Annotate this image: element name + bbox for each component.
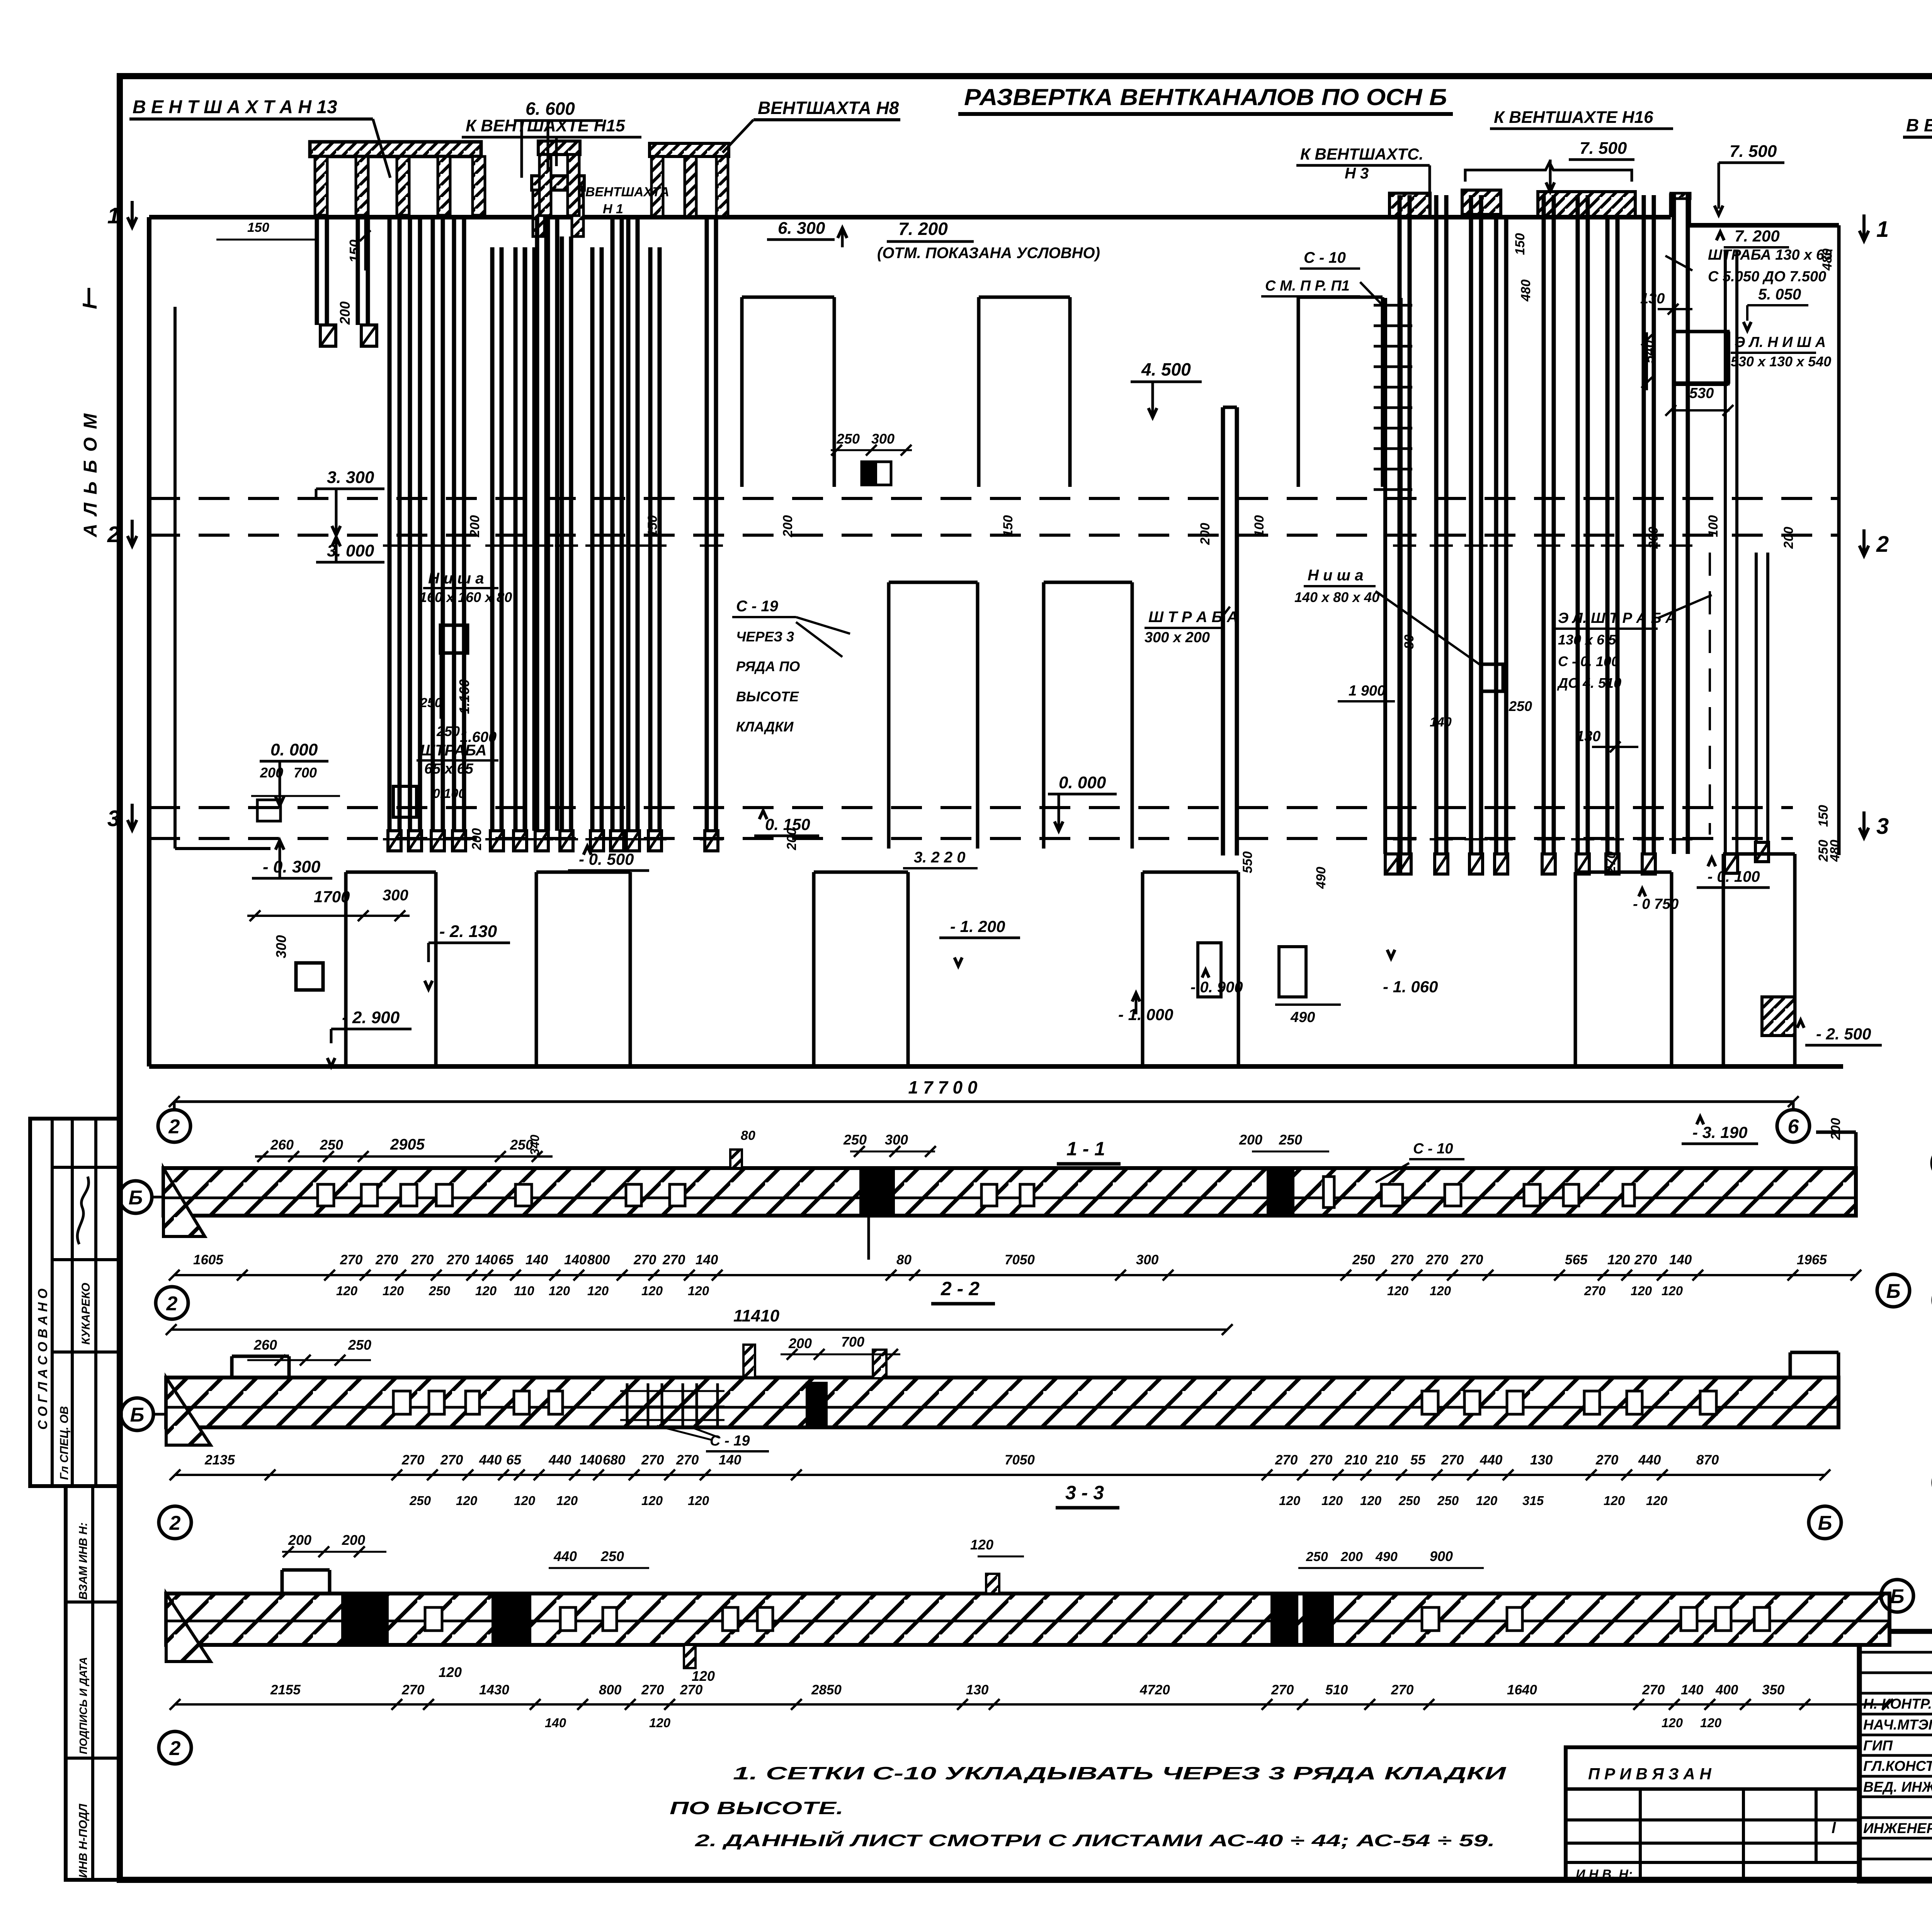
el shtraba channel dashed bbox=[1724, 251, 1727, 854]
svg-text:120: 120 bbox=[641, 1493, 663, 1508]
svg-text:Н и ш а: Н и ш а bbox=[428, 570, 484, 587]
svg-text:150: 150 bbox=[645, 515, 660, 537]
svg-text:250: 250 bbox=[510, 1137, 533, 1153]
svg-text:270: 270 bbox=[401, 1682, 425, 1697]
svg-text:ЧЕРЕЗ 3: ЧЕРЕЗ 3 bbox=[736, 629, 794, 645]
svg-text:140: 140 bbox=[1681, 1682, 1704, 1697]
svg-text:130: 130 bbox=[1576, 728, 1600, 745]
svg-text:140: 140 bbox=[580, 1452, 602, 1468]
svg-text:120: 120 bbox=[1604, 1493, 1625, 1508]
channels mid group bbox=[490, 247, 495, 831]
svg-text:6: 6 bbox=[1788, 1116, 1799, 1138]
svg-text:l: l bbox=[1832, 1820, 1836, 1837]
svg-text:350: 350 bbox=[1762, 1682, 1785, 1697]
svg-text:ИНЖЕНЕР.: ИНЖЕНЕР. bbox=[1863, 1820, 1932, 1836]
svg-text:270: 270 bbox=[1310, 1452, 1333, 1468]
svg-text:270: 270 bbox=[1425, 1252, 1449, 1267]
svg-text:315: 315 bbox=[1522, 1493, 1544, 1508]
svg-text:120: 120 bbox=[692, 1668, 715, 1684]
dashed level lines left drawing bbox=[149, 497, 1839, 500]
svg-text:С - 19: С - 19 bbox=[710, 1433, 750, 1449]
svg-text:120: 120 bbox=[688, 1284, 709, 1298]
svg-text:200: 200 bbox=[1646, 527, 1661, 549]
svg-text:7. 500: 7. 500 bbox=[1730, 142, 1777, 161]
left drawing outline bbox=[149, 215, 1671, 219]
1-1 chimney bbox=[730, 1150, 742, 1168]
svg-text:270: 270 bbox=[1275, 1452, 1298, 1468]
svg-text:ДО 4. 510: ДО 4. 510 bbox=[1557, 675, 1621, 691]
svg-text:120: 120 bbox=[649, 1716, 671, 1730]
windows lower row bbox=[889, 581, 978, 584]
svg-text:1 7 7 0 0: 1 7 7 0 0 bbox=[908, 1077, 977, 1097]
svg-text:270: 270 bbox=[401, 1452, 425, 1468]
svg-text:150: 150 bbox=[1001, 515, 1015, 537]
svg-text:110: 110 bbox=[514, 1284, 534, 1298]
left stamp: inv column bbox=[66, 1486, 120, 1880]
svg-text:- 2. 500: - 2. 500 bbox=[1816, 1025, 1871, 1043]
svg-text:Б: Б bbox=[1818, 1512, 1832, 1534]
svg-text:440: 440 bbox=[1480, 1452, 1503, 1468]
svg-text:С 5.050 ДО 7.500: С 5.050 ДО 7.500 bbox=[1708, 269, 1826, 285]
svg-text:65: 65 bbox=[506, 1452, 521, 1468]
svg-text:- 1. 000: - 1. 000 bbox=[1118, 1005, 1173, 1024]
svg-text:55: 55 bbox=[1410, 1452, 1425, 1468]
svg-text:1640: 1640 bbox=[1507, 1682, 1537, 1697]
section 2-2 band bbox=[166, 1378, 1838, 1427]
svg-text:490: 490 bbox=[1290, 1009, 1315, 1026]
svg-text:510: 510 bbox=[1325, 1682, 1348, 1697]
svg-text:150: 150 bbox=[1816, 805, 1831, 827]
svg-text:200: 200 bbox=[788, 1335, 812, 1351]
svg-text:65 х 65: 65 х 65 bbox=[424, 761, 474, 777]
svg-text:250: 250 bbox=[409, 1493, 431, 1508]
svg-text:130: 130 bbox=[1530, 1452, 1553, 1468]
svg-text:0. 000: 0. 000 bbox=[270, 740, 318, 759]
svg-text:- 2. 130: - 2. 130 bbox=[439, 922, 497, 941]
1-1 S-10 marker bbox=[1323, 1177, 1334, 1207]
svg-text:5. 050: 5. 050 bbox=[1758, 286, 1801, 303]
svg-text:7050: 7050 bbox=[1005, 1252, 1035, 1267]
small nisha square bbox=[296, 963, 323, 990]
svg-text:120: 120 bbox=[514, 1493, 536, 1508]
svg-text:1965: 1965 bbox=[1797, 1252, 1827, 1267]
2-2 white boxes bbox=[393, 1391, 410, 1414]
svg-text:1: 1 bbox=[1876, 217, 1889, 242]
svg-text:РЯДА ПО: РЯДА ПО bbox=[736, 658, 800, 674]
svg-text:3: 3 bbox=[1876, 814, 1889, 839]
svg-text:1. СЕТКИ С-10 УКЛАДЫВАТЬ ЧЕ: 1. СЕТКИ С-10 УКЛАДЫВАТЬ ЧЕРЕЗ 3 РЯДА КЛ… bbox=[733, 1763, 1507, 1783]
2-2 C-19 mesh bbox=[626, 1383, 629, 1426]
svg-text:К ВЕНТШАХТС.: К ВЕНТШАХТС. bbox=[1300, 145, 1423, 163]
svg-text:140: 140 bbox=[1430, 715, 1452, 730]
svg-text:270: 270 bbox=[633, 1252, 656, 1267]
svg-text:2850: 2850 bbox=[811, 1682, 842, 1697]
svg-text:КУКАРЕКО: КУКАРЕКО bbox=[80, 1283, 92, 1345]
svg-text:120: 120 bbox=[970, 1537, 993, 1553]
svg-text:120: 120 bbox=[1646, 1493, 1668, 1508]
svg-text:270: 270 bbox=[1460, 1252, 1483, 1267]
svg-text:Н 3: Н 3 bbox=[1345, 165, 1369, 182]
svg-text:Б: Б bbox=[129, 1187, 143, 1209]
svg-text:270: 270 bbox=[1391, 1682, 1414, 1697]
svg-text:250: 250 bbox=[1437, 1493, 1459, 1508]
svg-text:- 0. 500: - 0. 500 bbox=[579, 850, 634, 868]
svg-text:130: 130 bbox=[966, 1682, 989, 1697]
svg-text:1 900: 1 900 bbox=[1349, 683, 1385, 699]
svg-text:270: 270 bbox=[1634, 1252, 1657, 1267]
svg-text:3. 2 2 0: 3. 2 2 0 bbox=[914, 849, 965, 866]
svg-text:- 2. 900: - 2. 900 bbox=[342, 1008, 400, 1027]
svg-text:490: 490 bbox=[1375, 1549, 1398, 1564]
shtraba 65 box bbox=[393, 786, 417, 817]
svg-text:480: 480 bbox=[1820, 248, 1835, 271]
svg-text:140: 140 bbox=[564, 1252, 587, 1267]
svg-text:2135: 2135 bbox=[204, 1452, 235, 1468]
svg-text:150: 150 bbox=[347, 240, 362, 263]
tall channel right bbox=[1672, 193, 1676, 854]
svg-text:200: 200 bbox=[469, 828, 484, 850]
svg-text:250: 250 bbox=[843, 1132, 867, 1148]
svg-text:150: 150 bbox=[1513, 233, 1527, 255]
1-1 black squares bbox=[859, 1168, 895, 1216]
svg-text:120: 120 bbox=[587, 1284, 609, 1298]
svg-text:200: 200 bbox=[781, 515, 795, 537]
svg-text:4. 500: 4. 500 bbox=[1141, 359, 1191, 379]
vent cap N8 bbox=[650, 143, 729, 156]
svg-text:С - 10: С - 10 bbox=[1304, 249, 1346, 266]
svg-text:270: 270 bbox=[641, 1452, 664, 1468]
svg-text:(ОТМ. ПОКАЗАНА УСЛОВНО): (ОТМ. ПОКАЗАНА УСЛОВНО) bbox=[877, 245, 1100, 262]
svg-text:1 - 1: 1 - 1 bbox=[1066, 1138, 1105, 1160]
svg-text:250: 250 bbox=[1509, 698, 1532, 714]
svg-text:440: 440 bbox=[1638, 1452, 1661, 1468]
svg-text:260: 260 bbox=[253, 1337, 277, 1353]
svg-text:120: 120 bbox=[1662, 1284, 1683, 1298]
svg-text:2: 2 bbox=[168, 1116, 180, 1138]
svg-text:700: 700 bbox=[841, 1334, 864, 1350]
svg-text:120: 120 bbox=[336, 1284, 358, 1298]
svg-text:Н и ш а: Н и ш а bbox=[1308, 567, 1363, 584]
svg-text:2: 2 bbox=[1876, 532, 1889, 557]
svg-text:6. 600: 6. 600 bbox=[526, 99, 575, 119]
svg-text:120: 120 bbox=[1279, 1493, 1301, 1508]
svg-text:НАЧ.МТЭП: НАЧ.МТЭП bbox=[1863, 1717, 1932, 1733]
svg-text:К ВЕНТШАХТЕ Н15: К ВЕНТШАХТЕ Н15 bbox=[466, 116, 625, 135]
svg-text:2155: 2155 bbox=[270, 1682, 301, 1697]
svg-text:210: 210 bbox=[1344, 1452, 1367, 1468]
svg-text:2 - 2: 2 - 2 bbox=[940, 1278, 980, 1299]
svg-text:120: 120 bbox=[1700, 1716, 1722, 1730]
svg-text:120: 120 bbox=[383, 1284, 404, 1298]
svg-text:ИНВ Н-ПОДЛ: ИНВ Н-ПОДЛ bbox=[77, 1803, 90, 1878]
svg-text:80: 80 bbox=[896, 1252, 912, 1267]
circled B left of 1-1 bbox=[119, 1181, 152, 1213]
svg-text:270: 270 bbox=[446, 1252, 469, 1267]
svg-text:300: 300 bbox=[1136, 1252, 1159, 1267]
svg-text:Б: Б bbox=[1890, 1585, 1905, 1608]
svg-text:2. ДАННЫЙ ЛИСТ СМОТРИ С ЛИ: 2. ДАННЫЙ ЛИСТ СМОТРИ С ЛИСТАМИ АС-40 ÷ … bbox=[694, 1830, 1495, 1850]
svg-text:200: 200 bbox=[1828, 1118, 1843, 1140]
svg-text:1: 1 bbox=[107, 203, 120, 228]
svg-text:120: 120 bbox=[1476, 1493, 1498, 1508]
dim row 2-2 bbox=[175, 1474, 1825, 1476]
svg-text:120: 120 bbox=[1607, 1252, 1630, 1267]
svg-text:120: 120 bbox=[439, 1664, 462, 1680]
svg-text:3: 3 bbox=[107, 806, 120, 831]
svg-text:550: 550 bbox=[1240, 851, 1255, 873]
svg-text:100: 100 bbox=[1252, 515, 1267, 537]
svg-text:В Е Н Т Ш А Х Т А 11: В Е Н Т Ш А Х Т А 11 bbox=[1906, 115, 1932, 135]
svg-text:Ш Т Р А Б А: Ш Т Р А Б А bbox=[1148, 609, 1238, 626]
svg-text:В Е Н Т Ш А Х Т А Н 13: В Е Н Т Ш А Х Т А Н 13 bbox=[133, 97, 337, 117]
left stamp: soglasovano table bbox=[30, 1119, 119, 1486]
svg-text:200: 200 bbox=[1239, 1132, 1262, 1148]
svg-text:300: 300 bbox=[871, 431, 895, 447]
svg-text:900: 900 bbox=[1430, 1548, 1453, 1564]
svg-text:270: 270 bbox=[680, 1682, 703, 1697]
svg-text:120: 120 bbox=[1430, 1284, 1451, 1298]
svg-text:7. 500: 7. 500 bbox=[1580, 139, 1627, 158]
dim row 1-1 bbox=[174, 1274, 1856, 1276]
svg-text:- 1. 200: - 1. 200 bbox=[950, 917, 1005, 935]
svg-text:130 х 6 5: 130 х 6 5 bbox=[1558, 632, 1616, 648]
svg-text:200: 200 bbox=[1340, 1549, 1363, 1564]
svg-text:ШТРАБА: ШТРАБА bbox=[420, 742, 486, 759]
svg-text:200: 200 bbox=[1198, 523, 1213, 545]
svg-text:2: 2 bbox=[169, 1737, 181, 1760]
svg-text:680: 680 bbox=[603, 1452, 626, 1468]
svg-text:3. 300: 3. 300 bbox=[327, 468, 374, 487]
foundation piers bbox=[346, 871, 436, 874]
svg-text:С - 0. 100: С - 0. 100 bbox=[1558, 653, 1619, 669]
svg-text:65: 65 bbox=[498, 1252, 514, 1267]
svg-text:270: 270 bbox=[375, 1252, 398, 1267]
svg-text:210: 210 bbox=[1375, 1452, 1398, 1468]
3-3 chimneys bbox=[986, 1574, 999, 1594]
svg-text:250: 250 bbox=[600, 1548, 624, 1564]
svg-text:КЛАДКИ: КЛАДКИ bbox=[736, 719, 794, 735]
svg-text:РАЗВЕРТКА ВЕНТКАНАЛОВ ПО ОСН Б: РАЗВЕРТКА ВЕНТКАНАЛОВ ПО ОСН Б bbox=[964, 84, 1447, 110]
svg-text:1430: 1430 bbox=[479, 1682, 509, 1697]
svg-text:120: 120 bbox=[475, 1284, 497, 1298]
svg-text:100: 100 bbox=[1706, 515, 1721, 537]
svg-text:7. 200: 7. 200 bbox=[898, 219, 948, 239]
right low block -2.500 bbox=[1722, 854, 1725, 1068]
svg-text:530: 530 bbox=[1689, 385, 1714, 401]
el nisha 530 box bbox=[1674, 332, 1728, 384]
svg-text:- 0. 300: - 0. 300 bbox=[263, 857, 321, 876]
svg-text:270: 270 bbox=[1604, 851, 1618, 874]
svg-text:А Л Ь Б О М: А Л Ь Б О М bbox=[80, 412, 101, 537]
svg-text:490: 490 bbox=[1314, 867, 1328, 889]
svg-text:120: 120 bbox=[549, 1284, 570, 1298]
svg-text:1700: 1700 bbox=[314, 888, 350, 906]
2-2 chimneys bbox=[743, 1345, 755, 1378]
svg-text:250: 250 bbox=[1306, 1549, 1328, 1564]
svg-text:270: 270 bbox=[641, 1682, 664, 1697]
svg-text:120: 120 bbox=[1387, 1284, 1409, 1298]
channel pair right low bbox=[1755, 553, 1758, 842]
svg-text:Б: Б bbox=[1886, 1280, 1901, 1303]
svg-text:440: 440 bbox=[553, 1548, 577, 1564]
svg-text:250: 250 bbox=[420, 696, 442, 710]
svg-text:250: 250 bbox=[1279, 1132, 1302, 1148]
svg-text:11410: 11410 bbox=[733, 1306, 780, 1325]
svg-text:270: 270 bbox=[1642, 1682, 1665, 1697]
svg-text:С М. П Р. П1: С М. П Р. П1 bbox=[1265, 278, 1350, 294]
svg-text:4720: 4720 bbox=[1139, 1682, 1170, 1697]
nisha 160 box bbox=[440, 625, 468, 653]
svg-text:250: 250 bbox=[429, 1284, 451, 1298]
svg-text:140: 140 bbox=[1669, 1252, 1692, 1267]
svg-text:440: 440 bbox=[479, 1452, 502, 1468]
svg-text:- 0. 100: - 0. 100 bbox=[1708, 868, 1760, 885]
dim row 3-3 bbox=[175, 1703, 1888, 1706]
channels left group bbox=[315, 215, 319, 325]
svg-text:7050: 7050 bbox=[1005, 1452, 1035, 1468]
svg-text:120: 120 bbox=[556, 1493, 578, 1508]
svg-text:ГЛ.КОНСТР.: ГЛ.КОНСТР. bbox=[1863, 1758, 1932, 1774]
svg-text:Б: Б bbox=[130, 1404, 145, 1426]
svg-text:400: 400 bbox=[1715, 1682, 1738, 1697]
tall shtraba channel 300x200 bbox=[1221, 407, 1225, 855]
svg-text:К ВЕНТШАХТЕ Н16: К ВЕНТШАХТЕ Н16 bbox=[1494, 108, 1653, 127]
svg-text:250: 250 bbox=[436, 723, 460, 739]
svg-text:200: 200 bbox=[1781, 527, 1796, 549]
svg-text:200: 200 bbox=[784, 828, 799, 850]
svg-text:300: 300 bbox=[383, 887, 408, 904]
svg-text:ВЫСОТЕ: ВЫСОТЕ bbox=[736, 689, 799, 704]
svg-text:140: 140 bbox=[719, 1452, 742, 1468]
svg-text:270: 270 bbox=[1584, 1284, 1606, 1298]
2-2 black square bbox=[806, 1382, 828, 1425]
svg-text:270: 270 bbox=[440, 1452, 463, 1468]
svg-text:150: 150 bbox=[247, 220, 269, 235]
svg-text:200: 200 bbox=[260, 765, 283, 781]
svg-text:870: 870 bbox=[1696, 1452, 1719, 1468]
svg-text:0.100: 0.100 bbox=[433, 786, 466, 801]
svg-text:120: 120 bbox=[1631, 1284, 1652, 1298]
svg-text:565: 565 bbox=[1565, 1252, 1588, 1267]
svg-text:80: 80 bbox=[1402, 634, 1417, 649]
svg-text:130: 130 bbox=[1640, 291, 1665, 307]
svg-text:120: 120 bbox=[1321, 1493, 1343, 1508]
svg-text:800: 800 bbox=[599, 1682, 622, 1697]
svg-text:ВЗАМ ИНВ Н:: ВЗАМ ИНВ Н: bbox=[77, 1522, 90, 1600]
svg-text:140: 140 bbox=[475, 1252, 498, 1267]
vent cap N13 bbox=[310, 142, 481, 156]
svg-text:200: 200 bbox=[342, 1532, 365, 1548]
svg-text:300 х 200: 300 х 200 bbox=[1145, 629, 1210, 646]
svg-text:120: 120 bbox=[456, 1493, 478, 1508]
windows upper row bbox=[742, 296, 834, 299]
svg-text:270: 270 bbox=[1271, 1682, 1294, 1697]
svg-text:120: 120 bbox=[1360, 1493, 1382, 1508]
svg-text:270: 270 bbox=[662, 1252, 685, 1267]
svg-text:ПО ВЫСОТЕ.: ПО ВЫСОТЕ. bbox=[670, 1798, 844, 1818]
svg-text:120: 120 bbox=[641, 1284, 663, 1298]
svg-text:ГИП: ГИП bbox=[1863, 1738, 1893, 1753]
svg-text:300: 300 bbox=[273, 935, 289, 958]
svg-text:200: 200 bbox=[337, 301, 353, 325]
svg-text:3 - 3: 3 - 3 bbox=[1065, 1482, 1104, 1503]
svg-text:80: 80 bbox=[741, 1128, 755, 1143]
1-1 white channel boxes bbox=[318, 1184, 334, 1206]
svg-text:250: 250 bbox=[348, 1337, 371, 1353]
3-3 white boxes bbox=[425, 1607, 442, 1631]
svg-text:2905: 2905 bbox=[390, 1136, 425, 1153]
svg-text:Гл СПЕЦ. ОВ: Гл СПЕЦ. ОВ bbox=[58, 1406, 71, 1480]
svg-text:200: 200 bbox=[468, 515, 482, 537]
S-10 ladder channel bbox=[1383, 298, 1387, 854]
svg-text:200: 200 bbox=[288, 1532, 311, 1548]
svg-text:ВЕД. ИНЖ.: ВЕД. ИНЖ. bbox=[1863, 1779, 1932, 1795]
svg-text:530 х 130 х 540: 530 х 130 х 540 bbox=[1731, 354, 1831, 369]
svg-text:270: 270 bbox=[1391, 1252, 1414, 1267]
svg-text:Э Л. Н И Ш А: Э Л. Н И Ш А bbox=[1735, 334, 1826, 350]
center caps 7.500 bbox=[1389, 193, 1430, 216]
channels right cluster bbox=[1398, 195, 1402, 854]
svg-text:ПОДПИСЬ И ДАТА: ПОДПИСЬ И ДАТА bbox=[77, 1657, 89, 1754]
svg-text:250: 250 bbox=[836, 431, 860, 447]
svg-text:- 0 750: - 0 750 bbox=[1633, 896, 1679, 912]
svg-text:270: 270 bbox=[340, 1252, 363, 1267]
dim 150 200 left top bbox=[216, 239, 317, 241]
svg-text:140 х 80 х 40: 140 х 80 х 40 bbox=[1294, 589, 1379, 605]
svg-text:С О Г Л А С О В А Н О: С О Г Л А С О В А Н О bbox=[36, 1289, 50, 1430]
svg-text:2: 2 bbox=[107, 522, 120, 547]
svg-text:2: 2 bbox=[169, 1512, 181, 1534]
svg-text:2: 2 bbox=[166, 1293, 178, 1315]
dim 17700 bbox=[174, 1100, 1793, 1103]
svg-text:250: 250 bbox=[1398, 1493, 1420, 1508]
svg-text:260: 260 bbox=[270, 1137, 294, 1153]
svg-text:440: 440 bbox=[548, 1452, 571, 1468]
section 3-3 band bbox=[166, 1594, 1889, 1645]
svg-text:140: 140 bbox=[545, 1716, 566, 1730]
svg-text:- 3. 190: - 3. 190 bbox=[1692, 1123, 1747, 1141]
svg-text:480: 480 bbox=[1519, 279, 1533, 302]
channel tick rows bbox=[383, 544, 406, 547]
svg-text:480: 480 bbox=[1828, 840, 1842, 862]
svg-text:250: 250 bbox=[320, 1137, 343, 1153]
svg-text:1.160: 1.160 bbox=[456, 679, 472, 714]
svg-text:6. 300: 6. 300 bbox=[778, 219, 825, 238]
svg-text:140: 140 bbox=[526, 1252, 548, 1267]
svg-text:ШТРАБА 130 х 65: ШТРАБА 130 х 65 bbox=[1708, 247, 1833, 263]
svg-text:270: 270 bbox=[411, 1252, 434, 1267]
svg-text:800: 800 bbox=[587, 1252, 610, 1267]
svg-text:7. 200: 7. 200 bbox=[1735, 227, 1780, 245]
3-3 black squares bbox=[341, 1594, 389, 1645]
svg-text:250: 250 bbox=[1352, 1252, 1375, 1267]
svg-text:300: 300 bbox=[885, 1132, 908, 1148]
svg-text:1605: 1605 bbox=[193, 1252, 223, 1267]
svg-text:0. 000: 0. 000 bbox=[1059, 773, 1106, 792]
svg-text:270: 270 bbox=[676, 1452, 699, 1468]
svg-text:Н 1: Н 1 bbox=[603, 202, 623, 216]
svg-text:ВЕНТШАХТА Н8: ВЕНТШАХТА Н8 bbox=[758, 98, 899, 118]
svg-text:С - 19: С - 19 bbox=[736, 598, 779, 615]
vent cap N1 bbox=[538, 141, 580, 155]
svg-text:ВЕНТШАХТА: ВЕНТШАХТА bbox=[585, 185, 669, 199]
svg-text:270: 270 bbox=[1595, 1452, 1619, 1468]
nisha 140x80x40 box bbox=[1481, 664, 1503, 691]
door edge line bbox=[173, 307, 177, 849]
svg-text:П Р И В Я З А Н: П Р И В Я З А Н bbox=[1588, 1765, 1712, 1783]
svg-text:И Н В. Н:: И Н В. Н: bbox=[1576, 1867, 1633, 1882]
svg-text:С - 10: С - 10 bbox=[1413, 1141, 1453, 1157]
